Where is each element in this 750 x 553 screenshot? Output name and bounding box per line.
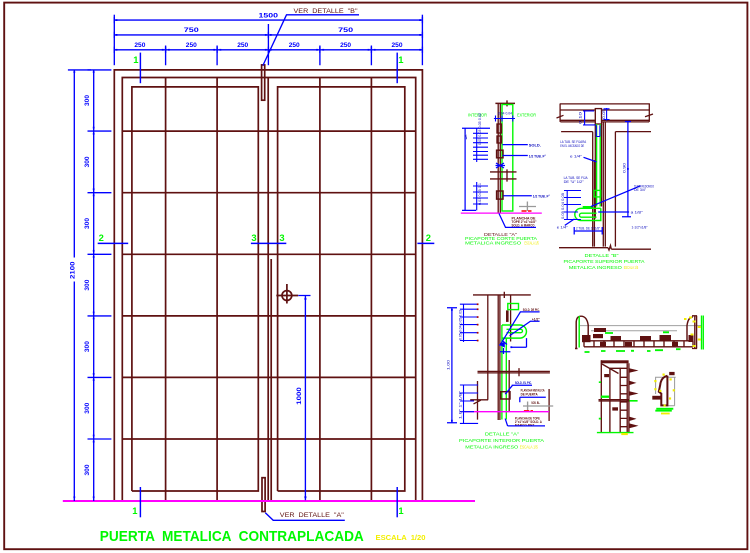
- detail B leader label tube: [634, 185, 654, 193]
- plan right jamb lines: [692, 316, 697, 349]
- plan yellow marks: [684, 317, 701, 348]
- vsection core rungs: [620, 377, 627, 426]
- svg-text:0.10: 0.10: [579, 112, 583, 124]
- marker 1 top-right line: [396, 53, 398, 84]
- vsection mid rail: [599, 400, 630, 401]
- svg-text:+1/2": +1/2": [532, 317, 540, 321]
- svg-text:ESCALA 1/5: ESCALA 1/5: [520, 445, 538, 450]
- svg-text:PUERTA METALICA CONTRAPLACAD: PUERTA METALICA CONTRAPLACADA: [100, 528, 364, 545]
- detail A1 anchor gray cross: [519, 202, 536, 212]
- svg-text:0.05 0.04 0.05: 0.05 0.04 0.05: [561, 193, 565, 219]
- marker 1 bottom-left line: [139, 487, 141, 517]
- detail A1 leader right 3: [504, 195, 532, 197]
- callout VER DETALLE B underline + leader: [263, 15, 359, 66]
- svg-text:300: 300: [84, 402, 91, 413]
- svg-text:750: 750: [184, 27, 199, 34]
- left leaf inner panel: [132, 87, 258, 491]
- detail B note top-left: [560, 140, 587, 148]
- detail B green handle loop inner: [580, 213, 597, 217]
- detail A2 note plancha: [521, 389, 545, 397]
- extension line left: [113, 15, 115, 65]
- vertical grid line v2: [216, 78, 218, 502]
- detail B bottom dim: [574, 227, 602, 235]
- horizontal grid line h6: [122, 438, 415, 440]
- detail A2 left jamb: [470, 381, 488, 420]
- marker 1 bottom-right line: [396, 487, 398, 517]
- detail B long dim: [622, 121, 631, 217]
- plan left end curve: [575, 316, 588, 348]
- horizontal grid line h4: [122, 315, 415, 317]
- detail B left jamb: [593, 132, 595, 247]
- plan right green line: [702, 316, 704, 350]
- detail A1 latch part 1: [497, 124, 502, 133]
- center meeting stile left leaf: [267, 78, 269, 502]
- svg-text:DE 3/4": DE 3/4": [634, 188, 647, 192]
- jamb gray frame: [655, 377, 676, 406]
- jamb green base: [656, 408, 673, 410]
- detail A1 mid break rails: [490, 169, 517, 181]
- detail A1 green tube highlight: [502, 105, 513, 212]
- svg-text:DETALLE "B": DETALLE "B": [585, 253, 620, 258]
- detail B left dim column: [564, 191, 581, 220]
- 2100 end ticks: [68, 69, 91, 71]
- detail B top dim left: [583, 111, 596, 125]
- svg-text:EXTERIOR: EXTERIOR: [517, 112, 536, 118]
- detail A2 mid rail: [478, 368, 550, 376]
- detail A1 leader right 1: [503, 144, 528, 146]
- svg-text:1.0" 1" 1/8": 1.0" 1" 1/8": [458, 390, 462, 419]
- svg-text:0.04 0.04: 0.04 0.04: [498, 112, 512, 116]
- vsection green base: [597, 432, 634, 434]
- vertical grid line v3: [319, 78, 321, 502]
- svg-text:PICAPORTE INTERIOR PUERTA: PICAPORTE INTERIOR PUERTA: [459, 438, 544, 443]
- svg-text:ESCALA 1/5: ESCALA 1/5: [624, 265, 639, 270]
- detail A1 left dim outer: [462, 128, 490, 210]
- svg-text:2: 2: [426, 232, 431, 243]
- door handle circle: [282, 291, 292, 301]
- jamb profile curve: [659, 376, 668, 406]
- dim line 750-750: [114, 32, 422, 38]
- svg-text:SOLD. DE PIC.: SOLD. DE PIC.: [523, 308, 540, 312]
- svg-text:1: 1: [133, 54, 138, 65]
- detail A2 green rod lines: [502, 325, 506, 420]
- svg-text:0.03 0.05 0.1: 0.03 0.05 0.1: [478, 183, 482, 205]
- horizontal grid line h2: [122, 192, 415, 194]
- door leaves outer edge: [122, 78, 415, 502]
- svg-text:ESCALA 1/5: ESCALA 1/5: [524, 241, 539, 246]
- svg-text:300: 300: [84, 341, 91, 352]
- vertical grid line v1: [165, 78, 167, 502]
- detail B ceiling underside: [561, 131, 651, 133]
- floor line (magenta): [63, 500, 475, 502]
- detail B ceiling left end: [557, 104, 564, 122]
- detail A1 latch part 4: [497, 191, 503, 199]
- detail A2 red marks: [524, 410, 533, 412]
- detail B top micro labels: [579, 109, 606, 124]
- svg-text:300: 300: [84, 95, 91, 106]
- detail A1 tube walls: [498, 104, 500, 213]
- dim line 1000: [298, 296, 310, 501]
- svg-text:1: 1: [398, 54, 403, 65]
- svg-text:SOLD. EL PIC.: SOLD. EL PIC.: [515, 381, 532, 385]
- detail A1 note block below floor: [512, 216, 537, 227]
- detail B tube head: [595, 109, 601, 124]
- dim 1000 dots: [304, 298, 306, 498]
- svg-text:250: 250: [340, 42, 351, 49]
- detail B floor baseline: [559, 246, 651, 251]
- callout VER DETALLE A underline + leader: [265, 513, 345, 521]
- svg-text:1/2 TUB. F°: 1/2 TUB. F°: [533, 195, 550, 199]
- detail A2 lower dim cluster: [460, 385, 478, 423]
- detail A2 left dim inner: [460, 304, 478, 342]
- vsection top underside: [602, 364, 627, 374]
- svg-text:e 1/4": e 1/4": [557, 226, 569, 230]
- detail A2 blue bracket: [511, 338, 526, 347]
- detail B ceiling lines: [560, 104, 650, 122]
- svg-text:250: 250: [134, 42, 145, 49]
- jamb yellow dots: [654, 374, 675, 407]
- svg-text:PICAPORTE SUPERIOR PUERTA: PICAPORTE SUPERIOR PUERTA: [564, 259, 645, 264]
- horizontal grid line h1: [122, 130, 415, 132]
- svg-text:300: 300: [84, 156, 91, 167]
- detail A1 latch part 3: [497, 150, 503, 158]
- svg-text:1-1/2"x1/8": 1-1/2"x1/8": [632, 225, 649, 229]
- detail A1 lintel line: [495, 100, 515, 106]
- svg-text:3: 3: [279, 232, 284, 243]
- plan gray lines: [580, 326, 702, 331]
- svg-text:2 TUB. DE 1"x1/8": 2 TUB. DE 1"x1/8": [576, 226, 601, 230]
- svg-text:250: 250: [186, 42, 197, 49]
- vsection green bar: [601, 396, 609, 398]
- detail B blue tube inner: [596, 125, 600, 136]
- horizontal grid line h3: [122, 253, 415, 255]
- svg-text:VER DETALLE "A": VER DETALLE "A": [280, 512, 344, 519]
- svg-text:METALICA INGRESO: METALICA INGRESO: [465, 241, 522, 246]
- dim line 2100: [73, 70, 75, 501]
- svg-text:0.05 0.03 0.05 0.02: 0.05 0.03 0.05 0.02: [478, 113, 482, 145]
- svg-text:300: 300: [84, 279, 91, 290]
- svg-text:1000: 1000: [296, 387, 303, 405]
- vsection yellow mark: [621, 433, 628, 435]
- plan solid blocks: [594, 328, 606, 332]
- detail A1 left dim lower ticks: [473, 182, 488, 210]
- detail B note mid-left: [564, 176, 589, 184]
- vsection verticals: [601, 360, 629, 432]
- svg-text:2: 2: [99, 232, 104, 243]
- svg-text:SOLD.: SOLD.: [529, 143, 541, 147]
- detail A2 verticals: [488, 295, 511, 420]
- svg-text:0.05: 0.05: [602, 109, 606, 119]
- jamb left solid tab: [652, 396, 660, 400]
- plan green dashes: [585, 332, 681, 352]
- svg-text:2100: 2100: [69, 261, 76, 279]
- svg-text:3: 3: [251, 232, 256, 243]
- svg-text:EN EL VACEADO DE: EN EL VACEADO DE: [560, 144, 585, 148]
- top astragal / flush bolt: [262, 65, 265, 100]
- svg-text:250: 250: [289, 42, 300, 49]
- detail A2 latch bar solid: [506, 310, 509, 322]
- svg-text:250: 250: [391, 42, 402, 49]
- detail A2 right vertical: [548, 389, 550, 421]
- detail A1 red marks: [522, 210, 532, 212]
- svg-text:SOB. BL.: SOB. BL.: [531, 401, 540, 405]
- svg-text:1: 1: [132, 505, 137, 516]
- svg-text:ESCALA 1/20: ESCALA 1/20: [376, 535, 426, 542]
- svg-text:1.00: 1.00: [447, 360, 451, 370]
- svg-text:DE "U" 1/2": DE "U" 1/2": [564, 180, 585, 184]
- svg-text:0.90: 0.90: [622, 163, 626, 173]
- extension line right: [421, 15, 423, 65]
- dim line 1500: [114, 17, 422, 23]
- bottom astragal / flush bolt: [262, 478, 265, 512]
- detail A2 left dim outer: [447, 308, 457, 423]
- detail A2 gray cross: [523, 402, 553, 411]
- detail A2 note below floor: [515, 416, 542, 427]
- svg-text:300: 300: [84, 218, 91, 229]
- right leaf inner panel: [278, 87, 405, 491]
- svg-text:METALICA INGRESO: METALICA INGRESO: [465, 445, 519, 450]
- dim line 250s: [114, 47, 422, 53]
- extension line center: [267, 24, 269, 65]
- extension ticks interior: [166, 46, 372, 66]
- detail B leader a 1/8: [598, 211, 629, 213]
- vsection green marks: [599, 382, 638, 418]
- detail A1 left dim inner ticks: [473, 128, 488, 162]
- detail B diagonal leader: [591, 186, 641, 207]
- plan door band: [584, 341, 693, 347]
- svg-text:DE PUERTA: DE PUERTA: [521, 393, 538, 397]
- dim dots left: [73, 71, 94, 498]
- svg-text:300: 300: [84, 464, 91, 475]
- detail A2 left dim red dots: [477, 303, 479, 341]
- detail B green handle loop outer: [575, 208, 601, 220]
- plan left green line: [578, 316, 580, 348]
- svg-text:e 1/4": e 1/4": [570, 155, 583, 159]
- door handle center mark: [276, 284, 298, 304]
- detail B green rod highlight: [597, 124, 601, 207]
- svg-text:DETALLE "A": DETALLE "A": [485, 432, 520, 437]
- svg-text:0.05 0.04 0.05 0.03: 0.05 0.04 0.05 0.03: [458, 310, 462, 340]
- detail A2 latch keeper rect: [501, 392, 510, 399]
- detail B green solid block: [583, 206, 593, 209]
- vsection solid tabs: [604, 374, 609, 377]
- detail A1 note leader: [499, 214, 536, 228]
- vertical grid line v4: [370, 78, 372, 502]
- detail A2 top wall line: [473, 292, 531, 298]
- detail A2 green handle loop outer: [502, 325, 526, 338]
- plan right end curve: [687, 317, 693, 341]
- dim dots top: [116, 19, 421, 51]
- detail A2 leader sold: [500, 312, 540, 346]
- svg-text:750: 750: [338, 27, 353, 34]
- detail A1 micro dim labels: [464, 113, 482, 205]
- detail A2 blue latch marks: [500, 341, 511, 355]
- svg-text:a 1/8": a 1/8": [631, 211, 644, 215]
- detail A2 green keeper: [508, 304, 519, 310]
- 300 division ticks: [88, 70, 112, 439]
- svg-text:250: 250: [237, 42, 248, 49]
- detail A2 floor line: [465, 411, 550, 413]
- dim texts 300 (rotated): [84, 95, 91, 476]
- horizontal grid line h5: [122, 376, 415, 378]
- detail A2 leader 1/2: [510, 321, 540, 336]
- detail B top dim right: [604, 108, 610, 121]
- jamb yellow base: [661, 413, 670, 415]
- door frame (marco): [114, 70, 422, 501]
- detail A1 floor line: [461, 212, 542, 214]
- svg-text:VER DETALLE "B": VER DETALLE "B": [294, 8, 358, 15]
- svg-text:1/2 TUB. F°: 1/2 TUB. F°: [529, 154, 546, 158]
- detail A2 green handle loop inner: [507, 329, 523, 332]
- detail A1 blue weld mark: [496, 163, 506, 168]
- vsection top bar: [601, 360, 629, 363]
- svg-text:1500: 1500: [259, 12, 279, 19]
- detail B tube walls: [595, 124, 601, 219]
- svg-text:METALICA INGRESO: METALICA INGRESO: [569, 265, 623, 270]
- detail B ceiling right end: [645, 104, 653, 122]
- detail B right jamb: [603, 122, 615, 247]
- detail A1 leader right 2: [503, 155, 528, 157]
- dim line 300s: [93, 70, 95, 501]
- jamb top solid tab: [669, 372, 674, 375]
- detail A1 top width dim: [494, 116, 515, 122]
- dim texts 250: [134, 42, 402, 49]
- vsection weld wedges: [629, 368, 638, 428]
- detail A1 latch part 2: [497, 136, 502, 143]
- center meeting stile right leaf: [270, 259, 272, 501]
- svg-text:1: 1: [398, 505, 403, 516]
- detail B green keeper: [594, 190, 601, 197]
- marker 1 top-left line: [139, 53, 141, 84]
